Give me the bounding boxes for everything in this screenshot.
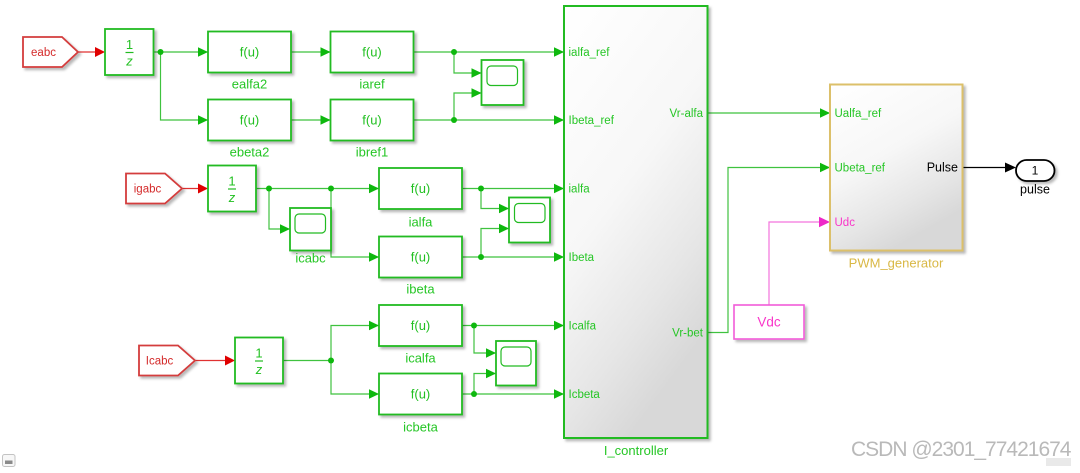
svg-text:ialfa: ialfa xyxy=(409,215,434,230)
svg-text:ebeta2: ebeta2 xyxy=(230,145,270,160)
svg-text:PWM_generator: PWM_generator xyxy=(849,256,944,271)
svg-text:pulse: pulse xyxy=(1020,183,1050,197)
svg-text:f(u): f(u) xyxy=(362,45,382,60)
svg-text:Ualfa_ref: Ualfa_ref xyxy=(835,108,882,120)
svg-text:z: z xyxy=(255,362,263,377)
svg-text:icalfa: icalfa xyxy=(405,351,436,366)
svg-text:Vr-bet: Vr-bet xyxy=(672,328,704,340)
svg-text:I_controller: I_controller xyxy=(604,443,669,458)
svg-text:f(u): f(u) xyxy=(411,250,431,265)
svg-text:1: 1 xyxy=(1032,164,1039,178)
svg-text:f(u): f(u) xyxy=(362,113,382,128)
svg-text:f(u): f(u) xyxy=(240,45,260,60)
svg-text:Vr-alfa: Vr-alfa xyxy=(670,108,704,120)
svg-text:z: z xyxy=(125,54,133,69)
svg-text:CSDN @2301_77421674: CSDN @2301_77421674 xyxy=(851,438,1072,461)
svg-text:Icbeta: Icbeta xyxy=(569,389,601,401)
svg-text:Udc: Udc xyxy=(835,217,856,229)
svg-text:ialfa: ialfa xyxy=(569,184,591,196)
svg-text:ibref1: ibref1 xyxy=(356,145,389,160)
svg-text:ibeta: ibeta xyxy=(406,282,435,297)
svg-text:1: 1 xyxy=(228,174,235,189)
svg-text:icbeta: icbeta xyxy=(403,420,438,435)
svg-text:Ubeta_ref: Ubeta_ref xyxy=(835,163,886,175)
svg-text:ealfa2: ealfa2 xyxy=(232,77,267,92)
svg-text:iaref: iaref xyxy=(359,77,385,92)
svg-text:f(u): f(u) xyxy=(411,387,431,402)
svg-text:f(u): f(u) xyxy=(411,318,431,333)
svg-text:eabc: eabc xyxy=(31,47,56,59)
svg-text:1: 1 xyxy=(255,346,262,361)
svg-text:Icabc: Icabc xyxy=(146,356,174,368)
svg-text:icabc: icabc xyxy=(295,251,326,266)
svg-text:z: z xyxy=(228,190,236,205)
svg-text:1: 1 xyxy=(126,37,133,52)
svg-text:f(u): f(u) xyxy=(411,181,431,196)
svg-text:Pulse: Pulse xyxy=(927,161,958,175)
svg-text:igabc: igabc xyxy=(134,184,162,196)
svg-text:Ibeta_ref: Ibeta_ref xyxy=(569,115,615,127)
svg-text:Ibeta: Ibeta xyxy=(569,252,595,264)
svg-text:Vdc: Vdc xyxy=(757,315,781,330)
svg-text:Icalfa: Icalfa xyxy=(569,321,597,333)
svg-text:ialfa_ref: ialfa_ref xyxy=(569,47,611,59)
svg-text:f(u): f(u) xyxy=(240,113,260,128)
